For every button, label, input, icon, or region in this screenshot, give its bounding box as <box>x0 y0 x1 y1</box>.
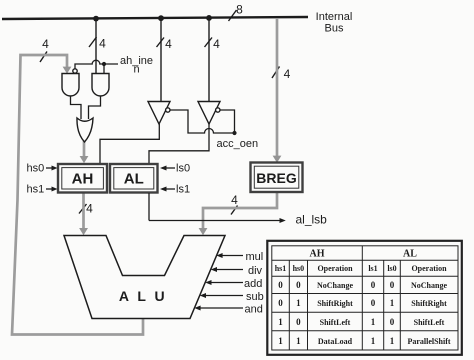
svg-text:DataLoad: DataLoad <box>318 337 353 346</box>
svg-text:div: div <box>248 265 263 277</box>
svg-text:0: 0 <box>278 298 283 308</box>
svg-text:acc_oen: acc_oen <box>217 138 259 150</box>
svg-text:ShiftLeft: ShiftLeft <box>320 318 351 327</box>
svg-text:0: 0 <box>371 298 376 308</box>
svg-text:al_lsb: al_lsb <box>296 213 328 227</box>
svg-text:0: 0 <box>296 280 301 290</box>
svg-text:hs1: hs1 <box>275 264 287 273</box>
svg-text:and: and <box>245 304 263 316</box>
svg-text:1: 1 <box>278 317 283 327</box>
svg-text:Internal: Internal <box>316 11 353 23</box>
svg-text:ls1: ls1 <box>176 184 190 196</box>
svg-text:1: 1 <box>390 298 395 308</box>
svg-text:4: 4 <box>42 37 49 51</box>
svg-text:A L U: A L U <box>119 288 167 304</box>
svg-text:1: 1 <box>371 317 376 327</box>
svg-text:hs0: hs0 <box>293 264 305 273</box>
svg-text:AL: AL <box>124 171 144 188</box>
svg-text:1: 1 <box>296 298 301 308</box>
svg-text:hs0: hs0 <box>27 163 45 175</box>
svg-text:0: 0 <box>390 280 395 290</box>
svg-text:Operation: Operation <box>411 264 447 273</box>
svg-text:sub: sub <box>246 291 264 303</box>
svg-text:ShiftRight: ShiftRight <box>317 299 353 308</box>
svg-text:4: 4 <box>284 67 291 81</box>
svg-text:ShiftLeft: ShiftLeft <box>414 318 445 327</box>
svg-text:ShiftRight: ShiftRight <box>411 299 447 308</box>
svg-text:0: 0 <box>390 317 395 327</box>
svg-text:1: 1 <box>390 336 395 346</box>
svg-text:4: 4 <box>99 37 106 51</box>
svg-text:0: 0 <box>296 317 301 327</box>
svg-text:4: 4 <box>213 37 220 51</box>
svg-text:1: 1 <box>278 336 283 346</box>
svg-text:n: n <box>134 64 140 76</box>
svg-text:4: 4 <box>165 37 172 51</box>
svg-text:ls0: ls0 <box>176 163 190 175</box>
svg-text:Bus: Bus <box>325 23 344 35</box>
svg-text:4: 4 <box>231 193 238 207</box>
svg-text:BREG: BREG <box>256 170 297 186</box>
svg-text:8: 8 <box>236 3 243 17</box>
svg-text:NoChange: NoChange <box>411 281 447 290</box>
svg-text:0: 0 <box>278 280 283 290</box>
svg-text:AL: AL <box>403 249 417 260</box>
svg-text:NoChange: NoChange <box>317 281 353 290</box>
svg-text:Operation: Operation <box>317 264 353 273</box>
svg-text:ParallelShift: ParallelShift <box>407 337 450 346</box>
svg-text:1: 1 <box>296 336 301 346</box>
svg-text:ls1: ls1 <box>368 264 377 273</box>
svg-text:0: 0 <box>371 280 376 290</box>
svg-text:4: 4 <box>86 202 93 216</box>
svg-text:ls0: ls0 <box>387 264 396 273</box>
svg-text:hs1: hs1 <box>27 184 45 196</box>
svg-text:AH: AH <box>72 171 94 188</box>
svg-text:add: add <box>244 278 262 290</box>
svg-text:AH: AH <box>310 249 325 260</box>
svg-text:mul: mul <box>246 251 264 263</box>
svg-text:1: 1 <box>371 336 376 346</box>
